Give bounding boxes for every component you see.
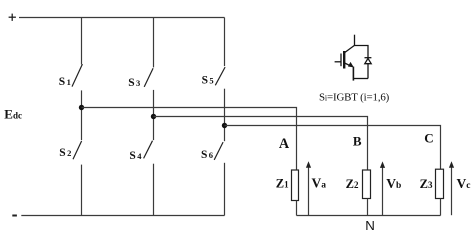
label Z2 — [346, 177, 359, 191]
load Z3 (phase C impedance) — [436, 169, 444, 198]
label Vc — [457, 176, 471, 191]
wire: Z2 bottom lead — [367, 199, 369, 216]
wire: leg2 middle lead — [153, 90, 155, 140]
svg-text:Z3: Z3 — [420, 177, 433, 191]
label S5 — [202, 75, 214, 87]
wire: leg1 lower lead — [81, 165, 83, 216]
wire: leg1 middle lead — [81, 90, 83, 140]
label Edc (DC source voltage) — [4, 107, 22, 122]
IGBT body bar — [343, 51, 345, 69]
wire: emitter to diode anode — [353, 78, 368, 80]
svg-text:B: B — [353, 134, 362, 149]
svg-text:S2: S2 — [59, 147, 71, 159]
wire: leg3 upper lead — [224, 18, 226, 67]
voltage arrow Vc — [449, 161, 454, 215]
switch S2 blade — [73, 141, 82, 159]
junction node C (leg3 midpoint) — [222, 123, 227, 128]
wire: bottom DC rail — [21, 215, 224, 217]
switch S3 blade — [144, 68, 153, 87]
label A (phase A) — [279, 136, 290, 152]
label S3 — [128, 77, 140, 89]
label Si=IGBT (i=1,6) — [319, 91, 390, 103]
wire: phase A output (node A to load Z1) — [82, 108, 297, 171]
load Z1 (phase A impedance) — [292, 170, 299, 201]
svg-text:S4: S4 — [129, 150, 142, 162]
freewheeling diode — [365, 58, 372, 79]
label Z1 — [276, 176, 289, 190]
svg-text:A: A — [279, 136, 290, 152]
label S4 — [129, 150, 142, 162]
IGBT gate bar — [340, 54, 342, 67]
wire: Z3 bottom lead — [440, 199, 442, 216]
voltage arrow Vb — [380, 161, 385, 215]
switch S6 blade — [214, 142, 223, 160]
wire: top DC rail — [19, 17, 225, 19]
junction node A (leg1 midpoint) — [79, 105, 84, 110]
voltage arrow Va — [306, 161, 311, 215]
wire: leg2 lower lead — [153, 164, 155, 216]
label S6 — [201, 149, 213, 161]
wire: phase C output (node C to load Z3) — [225, 126, 441, 170]
svg-text:N: N — [365, 218, 375, 233]
svg-text:S3: S3 — [128, 77, 140, 89]
junction node B (leg2 midpoint) — [151, 114, 156, 119]
wire: leg2 upper lead — [153, 18, 155, 68]
IGBT emitter diagonal with arrow — [345, 63, 352, 67]
label N (neutral node) — [365, 218, 375, 233]
svg-text:Vc: Vc — [457, 176, 471, 191]
svg-text:Si=IGBT (i=1,6): Si=IGBT (i=1,6) — [319, 91, 390, 103]
label Z3 — [420, 177, 433, 191]
label C (phase C) — [424, 131, 433, 146]
svg-text:Vb: Vb — [386, 176, 401, 191]
wire: Z1 bottom lead — [296, 201, 298, 216]
wire: load neutral rail — [297, 215, 441, 217]
label S2 — [59, 147, 71, 159]
label Va — [312, 175, 327, 190]
IGBT gate lead — [335, 61, 341, 63]
IGBT emitter terminal — [352, 67, 354, 81]
switch S4 blade — [144, 141, 153, 159]
wire: collector to diode cathode — [355, 46, 369, 58]
svg-text:S1: S1 — [59, 76, 71, 88]
load Z2 (phase B impedance) — [363, 170, 371, 199]
DC- terminal — [12, 215, 17, 217]
wire: phase B output (node B to load Z2) — [154, 117, 368, 171]
IGBT symbol (inset legend) — [335, 35, 372, 81]
wire: leg1 upper lead — [81, 18, 83, 65]
svg-text:S6: S6 — [201, 149, 213, 161]
IGBT collector terminal — [354, 35, 356, 46]
svg-text:C: C — [424, 131, 433, 146]
label B (phase B) — [353, 134, 362, 149]
label S1 — [59, 76, 71, 88]
svg-text:Va: Va — [312, 175, 327, 190]
switch S1 blade — [72, 64, 82, 87]
svg-text:Edc: Edc — [4, 107, 22, 122]
switch S5 blade — [215, 67, 225, 85]
wire: leg3 middle lead — [224, 89, 226, 142]
wire: leg3 lower lead — [224, 163, 226, 216]
svg-text:S5: S5 — [202, 75, 214, 87]
DC+ terminal — [9, 14, 16, 21]
svg-text:Z1: Z1 — [276, 176, 289, 190]
IGBT collector diagonal — [345, 45, 355, 53]
svg-text:Z2: Z2 — [346, 177, 359, 191]
label Vb — [386, 176, 401, 191]
